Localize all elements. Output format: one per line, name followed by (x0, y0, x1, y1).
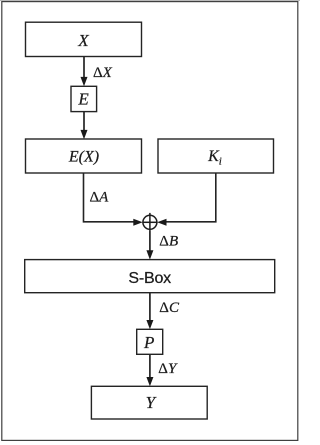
wire E to E(X) (83, 112, 85, 131)
box E(X) (26, 139, 142, 173)
svg-text:E: E (77, 90, 89, 109)
box Ki (158, 139, 274, 173)
arrowhead into E (81, 77, 88, 86)
scan edge top (0, 0, 300, 2)
svg-text:X: X (77, 31, 89, 50)
svg-text:ΔB: ΔB (159, 234, 178, 250)
label dX (93, 65, 113, 81)
svg-text:E(X): E(X) (68, 149, 99, 166)
xor node (143, 213, 157, 232)
wire X to E (83, 57, 85, 78)
wire P to Y (149, 354, 151, 378)
label dC (159, 300, 180, 316)
svg-text:ΔY: ΔY (158, 361, 178, 377)
svg-text:S-Box: S-Box (128, 270, 171, 287)
svg-text:P: P (143, 333, 154, 352)
svg-text:ΔC: ΔC (159, 300, 180, 316)
arrowhead into S-Box (146, 250, 153, 259)
box X (26, 22, 142, 56)
arrowhead into E(X) (81, 130, 88, 139)
svg-text:ΔX: ΔX (93, 65, 113, 81)
arrowhead into xor left (133, 219, 142, 226)
label dY (158, 361, 178, 377)
box Y (91, 386, 207, 419)
arrowhead into Y (146, 377, 153, 386)
label dB (159, 234, 178, 250)
arrowhead into xor right (157, 219, 166, 226)
svg-text:Y: Y (146, 393, 157, 412)
wire E(X) down and right to xor (84, 173, 135, 222)
arrowhead into P (146, 320, 153, 329)
wire Ki down and left to xor (166, 173, 216, 222)
wire S-Box to P (149, 293, 151, 321)
box S-Box (25, 260, 275, 293)
label dA (90, 190, 110, 206)
wire xor to S-Box (149, 231, 151, 251)
box E (71, 86, 97, 111)
box P (137, 329, 163, 354)
svg-text:ΔA: ΔA (90, 190, 110, 206)
